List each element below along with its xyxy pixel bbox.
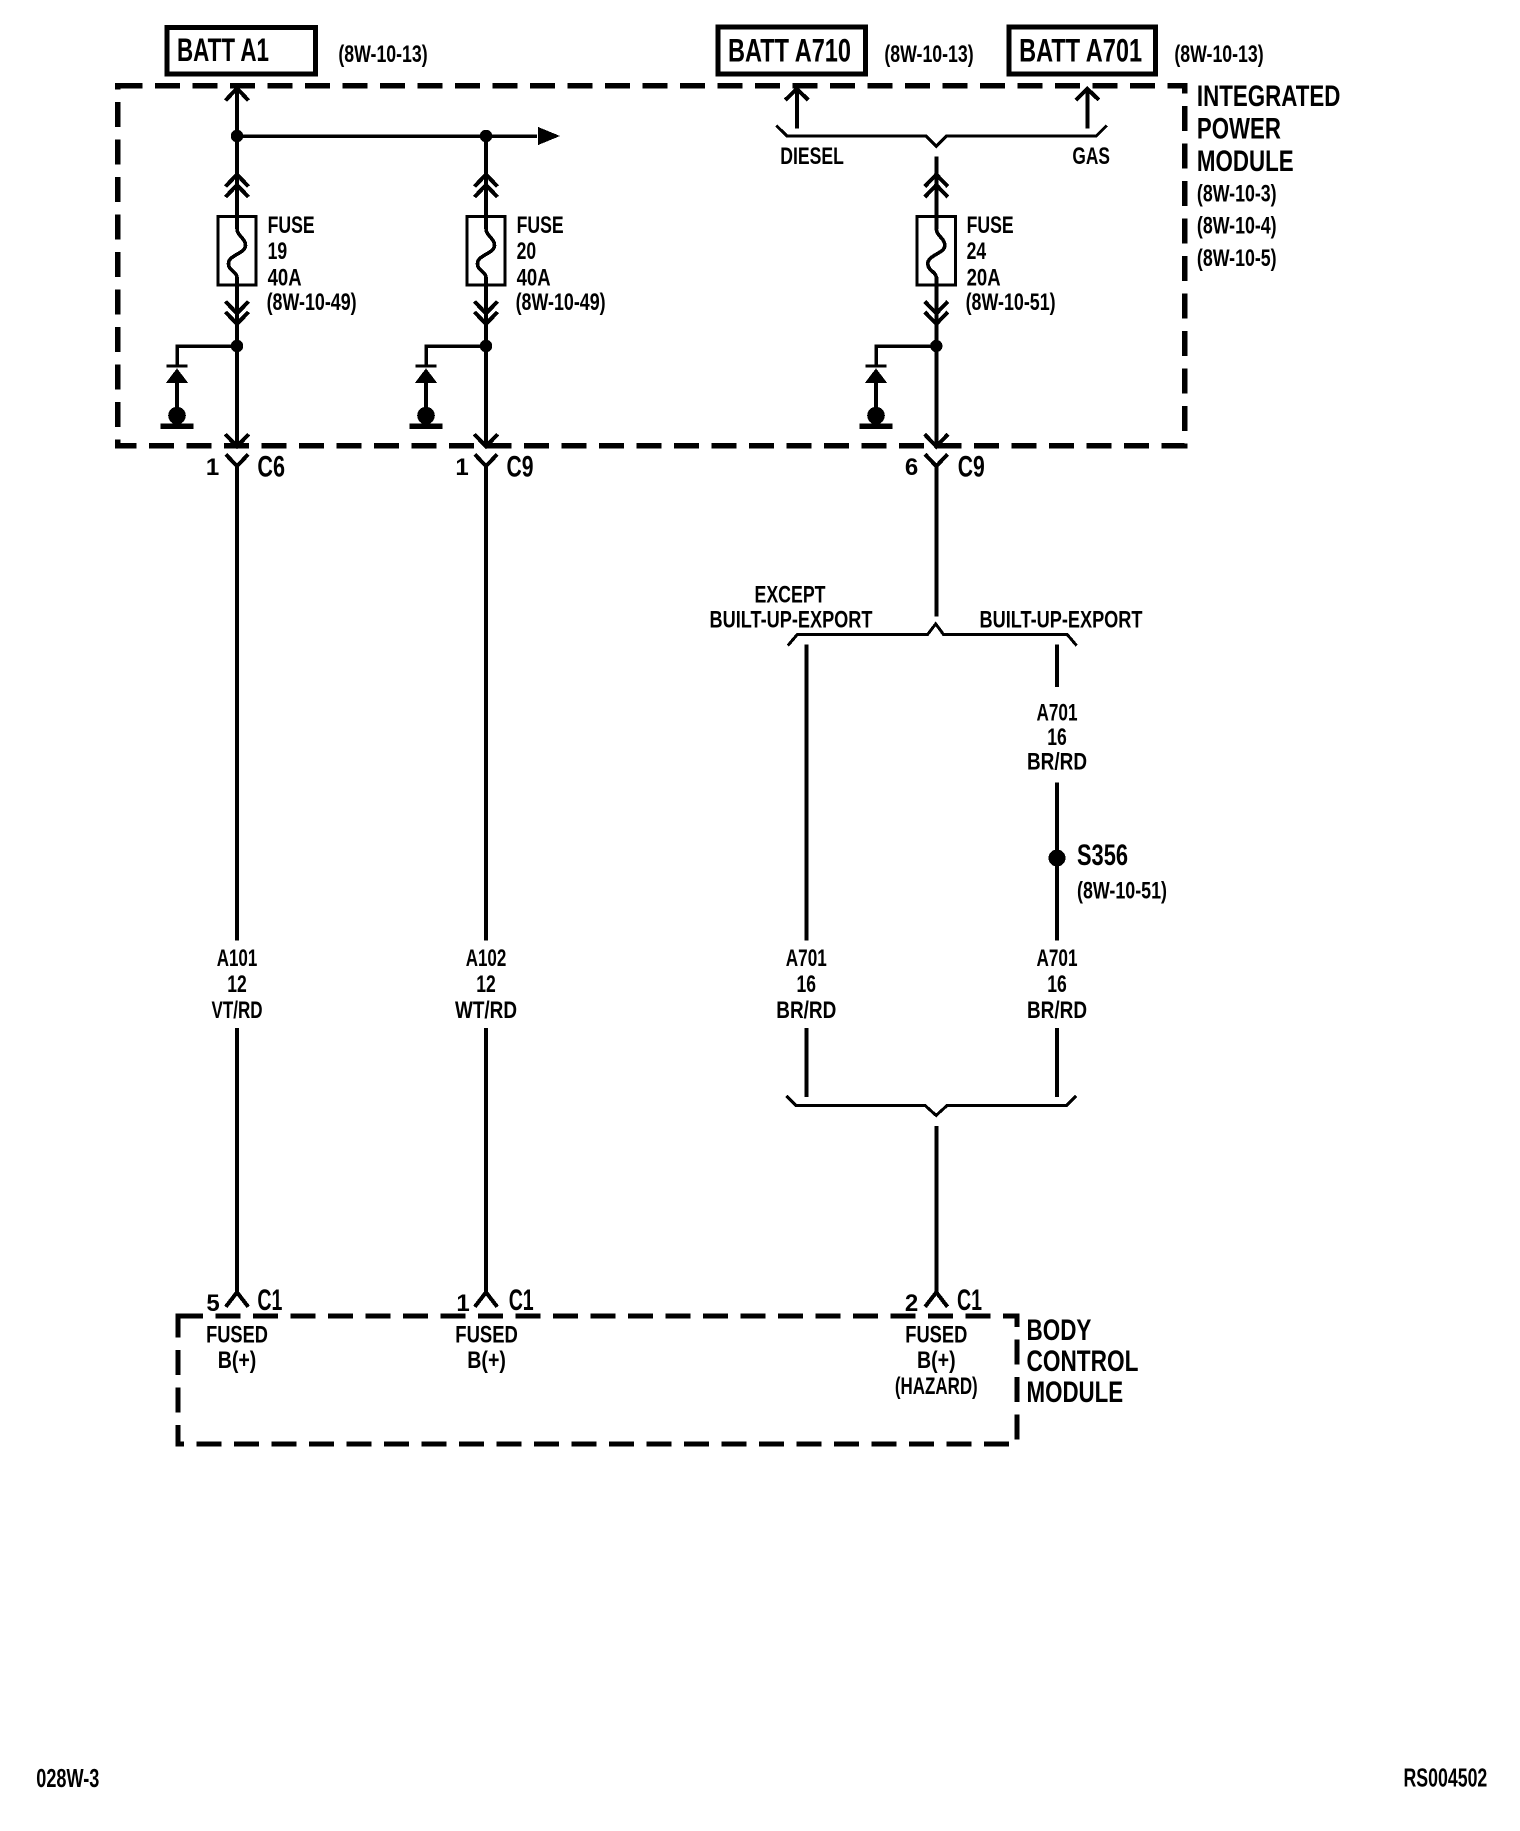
svg-text:MODULE: MODULE — [1197, 145, 1294, 178]
svg-text:CONTROL: CONTROL — [1027, 1345, 1139, 1378]
svg-text:A701: A701 — [1037, 945, 1078, 972]
svg-text:A701: A701 — [786, 945, 827, 972]
svg-text:C9: C9 — [958, 451, 985, 484]
svg-text:40A: 40A — [268, 264, 302, 291]
svg-text:C1: C1 — [957, 1284, 982, 1317]
svg-text:2: 2 — [905, 1290, 918, 1317]
svg-text:(8W-10-49): (8W-10-49) — [267, 289, 357, 316]
svg-text:BR/RD: BR/RD — [1027, 748, 1087, 775]
svg-text:(8W-10-4): (8W-10-4) — [1197, 212, 1277, 239]
svg-text:5: 5 — [206, 1290, 219, 1317]
svg-text:(8W-10-49): (8W-10-49) — [516, 289, 606, 316]
svg-text:FUSE: FUSE — [268, 212, 315, 239]
svg-text:MODULE: MODULE — [1027, 1376, 1124, 1409]
svg-text:(8W-10-51): (8W-10-51) — [1077, 878, 1167, 905]
svg-text:1: 1 — [206, 454, 219, 481]
svg-text:20: 20 — [517, 238, 537, 265]
svg-text:FUSED: FUSED — [206, 1322, 268, 1349]
svg-text:12: 12 — [476, 971, 496, 998]
svg-text:BR/RD: BR/RD — [776, 997, 836, 1024]
svg-text:(8W-10-13): (8W-10-13) — [884, 41, 973, 68]
svg-text:028W-3: 028W-3 — [36, 1763, 99, 1793]
svg-text:(8W-10-3): (8W-10-3) — [1197, 181, 1277, 208]
svg-text:C1: C1 — [509, 1284, 534, 1317]
svg-text:16: 16 — [1047, 971, 1067, 998]
svg-text:BATT A1: BATT A1 — [177, 32, 269, 68]
svg-text:A101: A101 — [217, 945, 258, 972]
svg-text:12: 12 — [227, 971, 247, 998]
svg-text:B(+): B(+) — [218, 1347, 257, 1374]
svg-text:1: 1 — [455, 454, 468, 481]
svg-text:1: 1 — [456, 1290, 469, 1317]
svg-text:BUILT-UP-EXPORT: BUILT-UP-EXPORT — [980, 607, 1143, 634]
svg-text:40A: 40A — [517, 264, 551, 291]
svg-text:19: 19 — [268, 238, 288, 265]
svg-text:INTEGRATED: INTEGRATED — [1197, 80, 1341, 113]
svg-text:BATT A701: BATT A701 — [1019, 33, 1142, 69]
svg-text:FUSED: FUSED — [455, 1322, 518, 1349]
svg-text:(8W-10-51): (8W-10-51) — [966, 289, 1056, 316]
svg-text:16: 16 — [1047, 724, 1067, 751]
svg-text:C9: C9 — [507, 451, 534, 484]
svg-text:C1: C1 — [257, 1284, 282, 1317]
svg-text:BUILT-UP-EXPORT: BUILT-UP-EXPORT — [710, 607, 873, 634]
svg-text:6: 6 — [905, 454, 918, 481]
svg-text:(8W-10-13): (8W-10-13) — [1174, 41, 1263, 68]
svg-text:VT/RD: VT/RD — [212, 997, 263, 1024]
svg-text:EXCEPT: EXCEPT — [755, 582, 826, 609]
svg-text:GAS: GAS — [1072, 143, 1110, 170]
svg-text:FUSE: FUSE — [517, 212, 564, 239]
svg-text:(8W-10-13): (8W-10-13) — [338, 41, 427, 68]
svg-text:S356: S356 — [1077, 839, 1128, 872]
svg-text:(HAZARD): (HAZARD) — [895, 1373, 978, 1400]
svg-text:(8W-10-5): (8W-10-5) — [1197, 245, 1277, 272]
svg-text:A102: A102 — [466, 945, 507, 972]
svg-text:B(+): B(+) — [467, 1347, 506, 1374]
svg-text:WT/RD: WT/RD — [455, 997, 517, 1024]
svg-text:FUSE: FUSE — [967, 212, 1014, 239]
svg-text:16: 16 — [797, 971, 817, 998]
svg-text:20A: 20A — [967, 264, 1001, 291]
svg-text:BR/RD: BR/RD — [1027, 997, 1087, 1024]
svg-text:FUSED: FUSED — [905, 1322, 967, 1349]
svg-text:C6: C6 — [257, 451, 285, 484]
svg-text:POWER: POWER — [1197, 113, 1281, 146]
svg-text:RS004502: RS004502 — [1404, 1762, 1488, 1792]
svg-text:A701: A701 — [1037, 700, 1078, 727]
svg-text:BODY: BODY — [1027, 1314, 1092, 1347]
svg-text:DIESEL: DIESEL — [780, 143, 844, 170]
svg-text:B(+): B(+) — [917, 1347, 956, 1374]
svg-text:BATT A710: BATT A710 — [728, 33, 851, 69]
svg-text:24: 24 — [967, 238, 987, 265]
